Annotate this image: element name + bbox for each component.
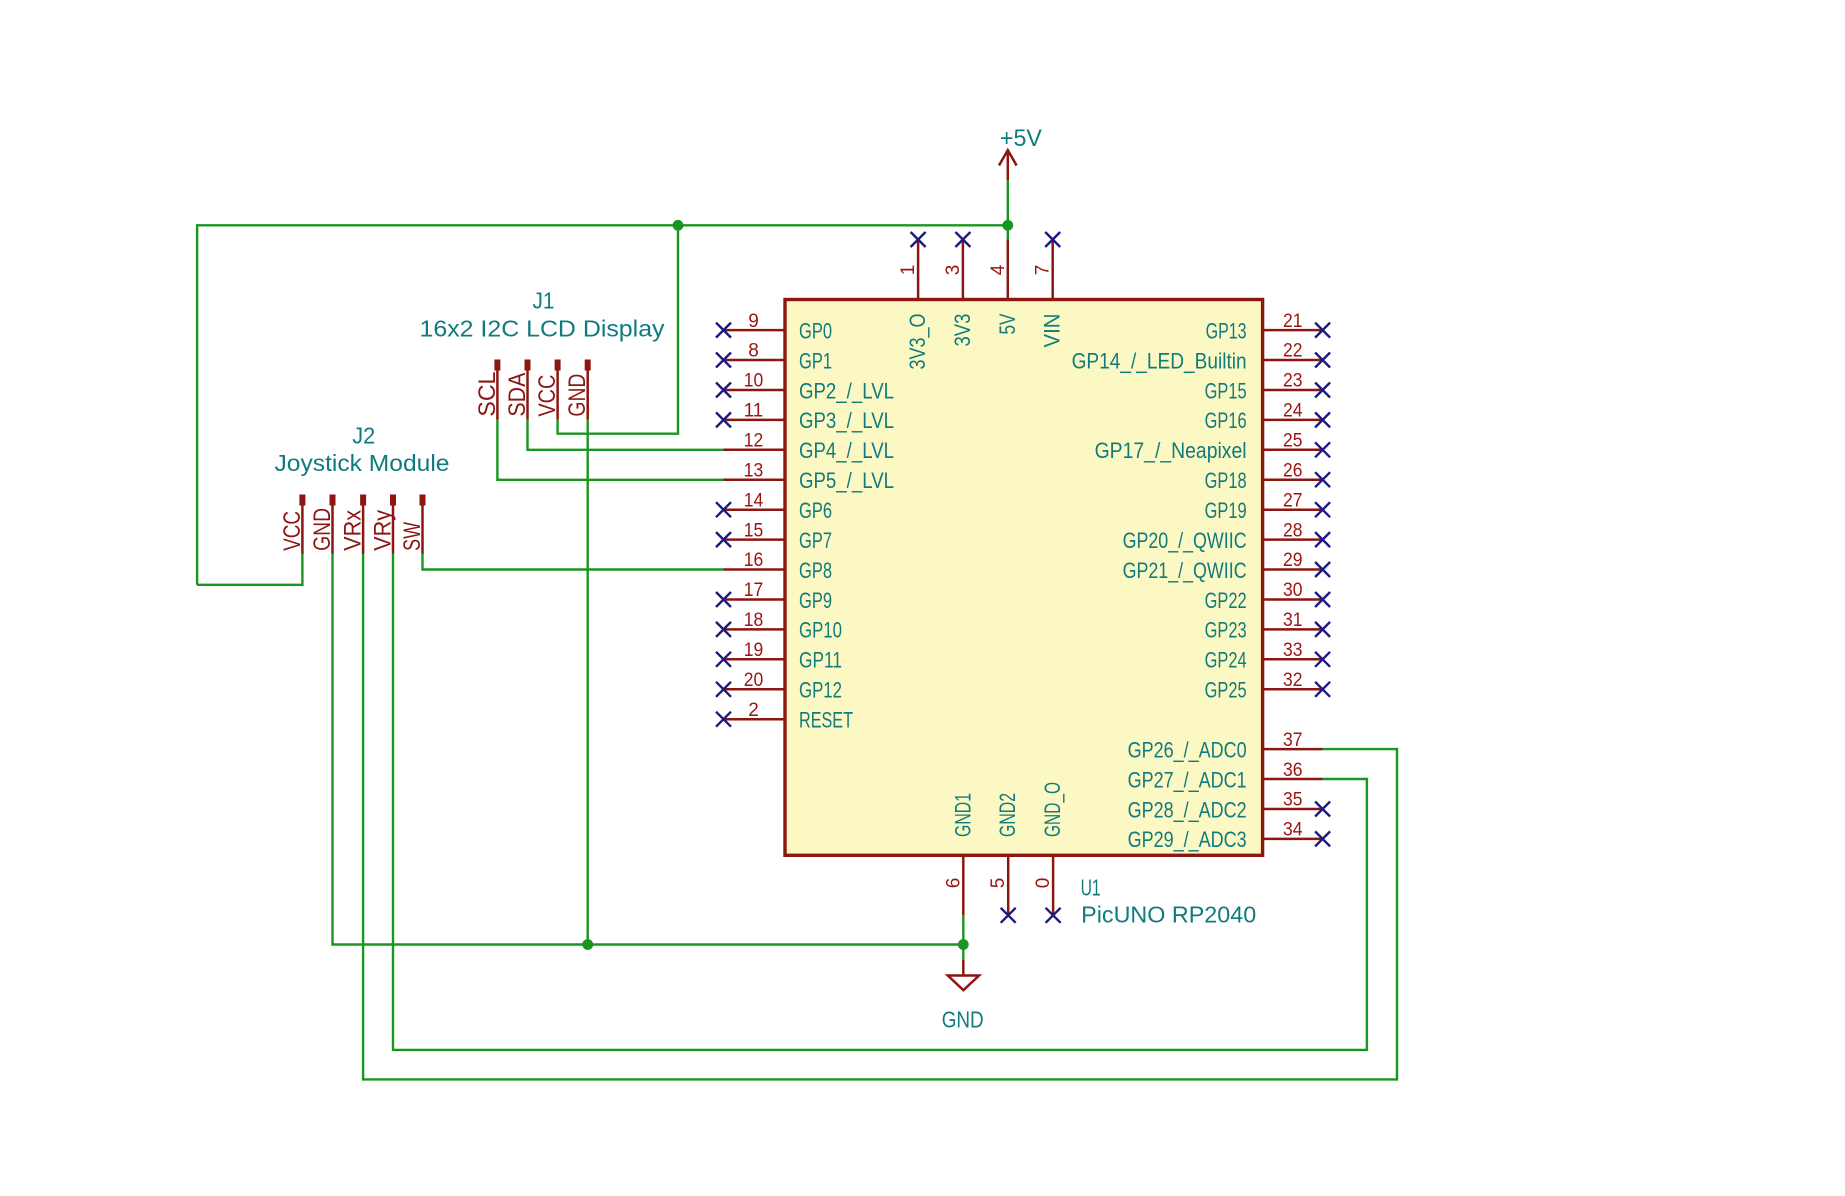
pin 25 GP17_/_Neapixel (right): [1095, 431, 1331, 464]
svg-text:17: 17: [744, 580, 764, 601]
connector J1 pin VCC: [534, 360, 561, 420]
connector J2 pin SW: [399, 495, 426, 554]
svg-text:GP24: GP24: [1205, 648, 1247, 673]
svg-text:GP17_/_Neapixel: GP17_/_Neapixel: [1095, 438, 1247, 463]
svg-text:20: 20: [744, 670, 764, 691]
svg-text:GP16: GP16: [1205, 408, 1247, 433]
svg-text:GP7: GP7: [799, 528, 832, 553]
pin 4 5V (top): [988, 240, 1020, 335]
connector J1 pin SCL: [474, 360, 501, 420]
svg-text:34: 34: [1283, 820, 1303, 841]
svg-text:29: 29: [1283, 550, 1303, 571]
svg-text:11: 11: [744, 401, 764, 422]
pin 1 3V3_O (top): [898, 232, 930, 370]
svg-text:GP5_/_LVL: GP5_/_LVL: [799, 468, 894, 493]
pin 7 VIN (top): [1033, 232, 1065, 348]
pin 8 GP1 (left): [716, 341, 832, 374]
junction J1 VCC / +5V rail: [673, 220, 684, 231]
svg-text:15: 15: [744, 520, 764, 541]
pin 23 GP15 (right): [1205, 371, 1331, 404]
connector J2 pin VCC: [279, 495, 306, 554]
pin 10 GP2_/_LVL (left): [716, 371, 894, 404]
svg-text:4: 4: [988, 264, 1009, 275]
connector J1 pin SDA: [504, 360, 531, 420]
svg-text:13: 13: [744, 460, 764, 481]
pin 2 RESET (left): [716, 700, 853, 733]
svg-text:7: 7: [1033, 265, 1054, 276]
svg-text:3: 3: [943, 265, 964, 276]
pin 27 GP19 (right): [1205, 490, 1331, 523]
svg-text:10: 10: [744, 371, 764, 392]
connector J1 value 16x2 I2C LCD Display: [420, 315, 666, 341]
connector J1 pin GND: [564, 360, 591, 420]
pin 3 3V3 (top): [943, 232, 975, 347]
svg-text:21: 21: [1283, 311, 1303, 332]
svg-text:VIN: VIN: [1040, 314, 1065, 348]
wire +5V rail: left loop top: [197, 225, 1008, 585]
svg-text:RESET: RESET: [799, 708, 853, 733]
svg-text:25: 25: [1283, 431, 1303, 452]
pin 17 GP9 (left): [716, 580, 832, 613]
connector J2 pin VRy: [370, 495, 397, 554]
svg-text:GND2: GND2: [995, 793, 1020, 837]
svg-text:GP11: GP11: [799, 648, 842, 673]
wire +5V to pin 4 (5V): [1007, 180, 1009, 239]
connector J2 pin VRx: [340, 495, 367, 554]
svg-text:27: 27: [1283, 490, 1303, 511]
svg-text:1: 1: [898, 265, 919, 276]
pin 9 GP0 (left): [716, 311, 832, 344]
wire J1 VCC to +5V rail: [558, 225, 678, 433]
pin 36 GP27_/_ADC1 (right): [1128, 760, 1323, 793]
svg-text:GP19: GP19: [1205, 498, 1247, 523]
svg-text:VCC: VCC: [279, 511, 306, 551]
pin 29 GP21_/_QWIIC (right): [1123, 550, 1331, 583]
pin 15 GP7 (left): [716, 520, 832, 553]
svg-text:16x2 I2C LCD Display: 16x2 I2C LCD Display: [420, 315, 666, 341]
svg-text:14: 14: [744, 490, 764, 511]
svg-text:GND: GND: [309, 508, 336, 551]
svg-text:24: 24: [1283, 401, 1303, 422]
pin 11 GP3_/_LVL (left): [716, 401, 894, 434]
svg-text:GP0: GP0: [799, 318, 832, 343]
svg-text:GP13: GP13: [1206, 318, 1247, 343]
svg-text:GND: GND: [564, 374, 591, 417]
pin 30 GP22 (right): [1205, 580, 1331, 613]
svg-text:3V3_O: 3V3_O: [905, 314, 930, 370]
svg-text:GP21_/_QWIIC: GP21_/_QWIIC: [1123, 558, 1247, 583]
svg-text:23: 23: [1283, 371, 1303, 392]
svg-text:9: 9: [748, 311, 759, 332]
pin 12 GP4_/_LVL (left): [724, 431, 895, 464]
svg-text:6: 6: [943, 878, 964, 889]
svg-text:31: 31: [1283, 610, 1303, 631]
pin 37 GP26_/_ADC0 (right): [1128, 730, 1323, 763]
svg-text:SCL: SCL: [474, 372, 501, 417]
svg-text:GP28_/_ADC2: GP28_/_ADC2: [1128, 797, 1247, 822]
svg-text:36: 36: [1283, 760, 1303, 781]
svg-text:GP1: GP1: [799, 348, 832, 373]
svg-text:VCC: VCC: [534, 375, 561, 417]
pin 31 GP23 (right): [1205, 610, 1331, 643]
pin 35 GP28_/_ADC2 (right): [1128, 790, 1331, 823]
svg-text:GP23: GP23: [1205, 618, 1247, 643]
wire J2 VCC to +5V rail: [197, 554, 302, 585]
svg-text:GP8: GP8: [799, 558, 832, 583]
pin 16 GP8 (left): [724, 550, 833, 583]
svg-text:GP29_/_ADC3: GP29_/_ADC3: [1128, 827, 1247, 852]
svg-text:+5V: +5V: [1000, 125, 1042, 152]
pin 14 GP6 (left): [716, 490, 832, 523]
connector J2 value Joystick Module: [275, 450, 450, 476]
svg-text:GP4_/_LVL: GP4_/_LVL: [799, 438, 894, 463]
pin 22 GP14_/_LED_Builtin (right): [1072, 341, 1331, 374]
svg-text:37: 37: [1283, 730, 1303, 751]
svg-text:22: 22: [1283, 341, 1303, 362]
connector J1 reference: [533, 288, 555, 314]
wire J1 SCL to GP5: [497, 420, 723, 480]
svg-text:32: 32: [1283, 670, 1303, 691]
svg-text:J1: J1: [533, 288, 555, 314]
svg-text:GP27_/_ADC1: GP27_/_ADC1: [1128, 767, 1247, 792]
svg-text:GND1: GND1: [950, 793, 975, 837]
wire J1 SDA to GP4: [528, 420, 724, 450]
pin 32 GP25 (right): [1205, 670, 1331, 703]
svg-text:30: 30: [1283, 580, 1303, 601]
svg-text:GP12: GP12: [799, 678, 842, 703]
svg-text:GP20_/_QWIIC: GP20_/_QWIIC: [1123, 528, 1247, 553]
svg-text:18: 18: [744, 610, 764, 631]
svg-text:5: 5: [988, 878, 1009, 889]
svg-text:26: 26: [1283, 460, 1303, 481]
pin 24 GP16 (right): [1205, 401, 1331, 434]
svg-text:35: 35: [1283, 790, 1303, 811]
wire J2 VRy to GP27_/_ADC1: [393, 554, 1367, 1050]
svg-text:J2: J2: [352, 422, 375, 448]
svg-text:GP3_/_LVL: GP3_/_LVL: [799, 408, 894, 433]
svg-text:PicUNO RP2040: PicUNO RP2040: [1081, 901, 1256, 927]
IC U1 PicUNO RP2040 body: [785, 300, 1263, 856]
junction +5V rail / 5V pin: [1002, 220, 1013, 231]
pin 18 GP10 (left): [716, 610, 842, 643]
svg-text:3V3: 3V3: [950, 314, 975, 347]
svg-text:16: 16: [744, 550, 764, 571]
pin 34 GP29_/_ADC3 (right): [1128, 820, 1331, 853]
svg-text:GP14_/_LED_Builtin: GP14_/_LED_Builtin: [1072, 348, 1247, 373]
svg-text:0: 0: [1033, 878, 1054, 889]
pin 5 GND2 (bottom): [988, 793, 1020, 923]
connector J2 pin GND: [309, 495, 336, 554]
svg-text:GP6: GP6: [799, 498, 832, 523]
svg-text:12: 12: [744, 431, 764, 452]
svg-text:GP26_/_ADC0: GP26_/_ADC0: [1128, 737, 1247, 762]
svg-text:SDA: SDA: [504, 373, 531, 417]
wire J2 SW to GP8: [423, 554, 724, 570]
svg-text:5V: 5V: [995, 313, 1020, 334]
power symbol +5V: [999, 125, 1042, 180]
pin 0 GND_O (bottom): [1033, 782, 1065, 923]
svg-text:VRx: VRx: [340, 510, 367, 551]
wire GND net: J2 GND to GND symbol: [333, 554, 964, 945]
pin 19 GP11 (left): [716, 640, 842, 673]
pin 28 GP20_/_QWIIC (right): [1123, 520, 1331, 553]
pin 6 GND1 (bottom): [943, 793, 975, 915]
U1 reference label: [1081, 875, 1101, 901]
pin 13 GP5_/_LVL (left): [724, 460, 895, 493]
wire J1 GND down to GND net: [587, 420, 589, 945]
svg-text:8: 8: [748, 341, 759, 362]
svg-text:GND_O: GND_O: [1040, 782, 1065, 837]
svg-text:33: 33: [1283, 640, 1303, 661]
junction J1 GND / GND net: [582, 939, 593, 950]
svg-text:28: 28: [1283, 520, 1303, 541]
svg-text:SW: SW: [399, 522, 426, 551]
connector J2 reference: [352, 422, 375, 448]
svg-text:19: 19: [744, 640, 764, 661]
wire GND1 pin to GND symbol: [962, 915, 964, 960]
svg-text:GP22: GP22: [1205, 588, 1247, 613]
svg-text:GP9: GP9: [799, 588, 832, 613]
svg-text:U1: U1: [1081, 875, 1101, 901]
svg-text:GP25: GP25: [1205, 678, 1247, 703]
svg-text:2: 2: [748, 700, 759, 721]
ground symbol GND: [942, 960, 984, 1033]
pin 20 GP12 (left): [716, 670, 842, 703]
svg-text:Joystick Module: Joystick Module: [275, 450, 450, 476]
svg-text:GP10: GP10: [799, 618, 842, 643]
svg-text:GND: GND: [942, 1007, 984, 1033]
svg-text:VRy: VRy: [370, 510, 397, 551]
pin 26 GP18 (right): [1205, 460, 1331, 493]
svg-text:GP2_/_LVL: GP2_/_LVL: [799, 378, 894, 403]
wire J2 VRx to GP26_/_ADC0: [363, 554, 1397, 1080]
svg-text:GP18: GP18: [1205, 468, 1247, 493]
junction GND net / GND symbol: [958, 939, 969, 950]
pin 33 GP24 (right): [1205, 640, 1331, 673]
svg-text:GP15: GP15: [1205, 378, 1247, 403]
U1 value label PicUNO RP2040: [1081, 901, 1256, 927]
pin 21 GP13 (right): [1206, 311, 1331, 344]
